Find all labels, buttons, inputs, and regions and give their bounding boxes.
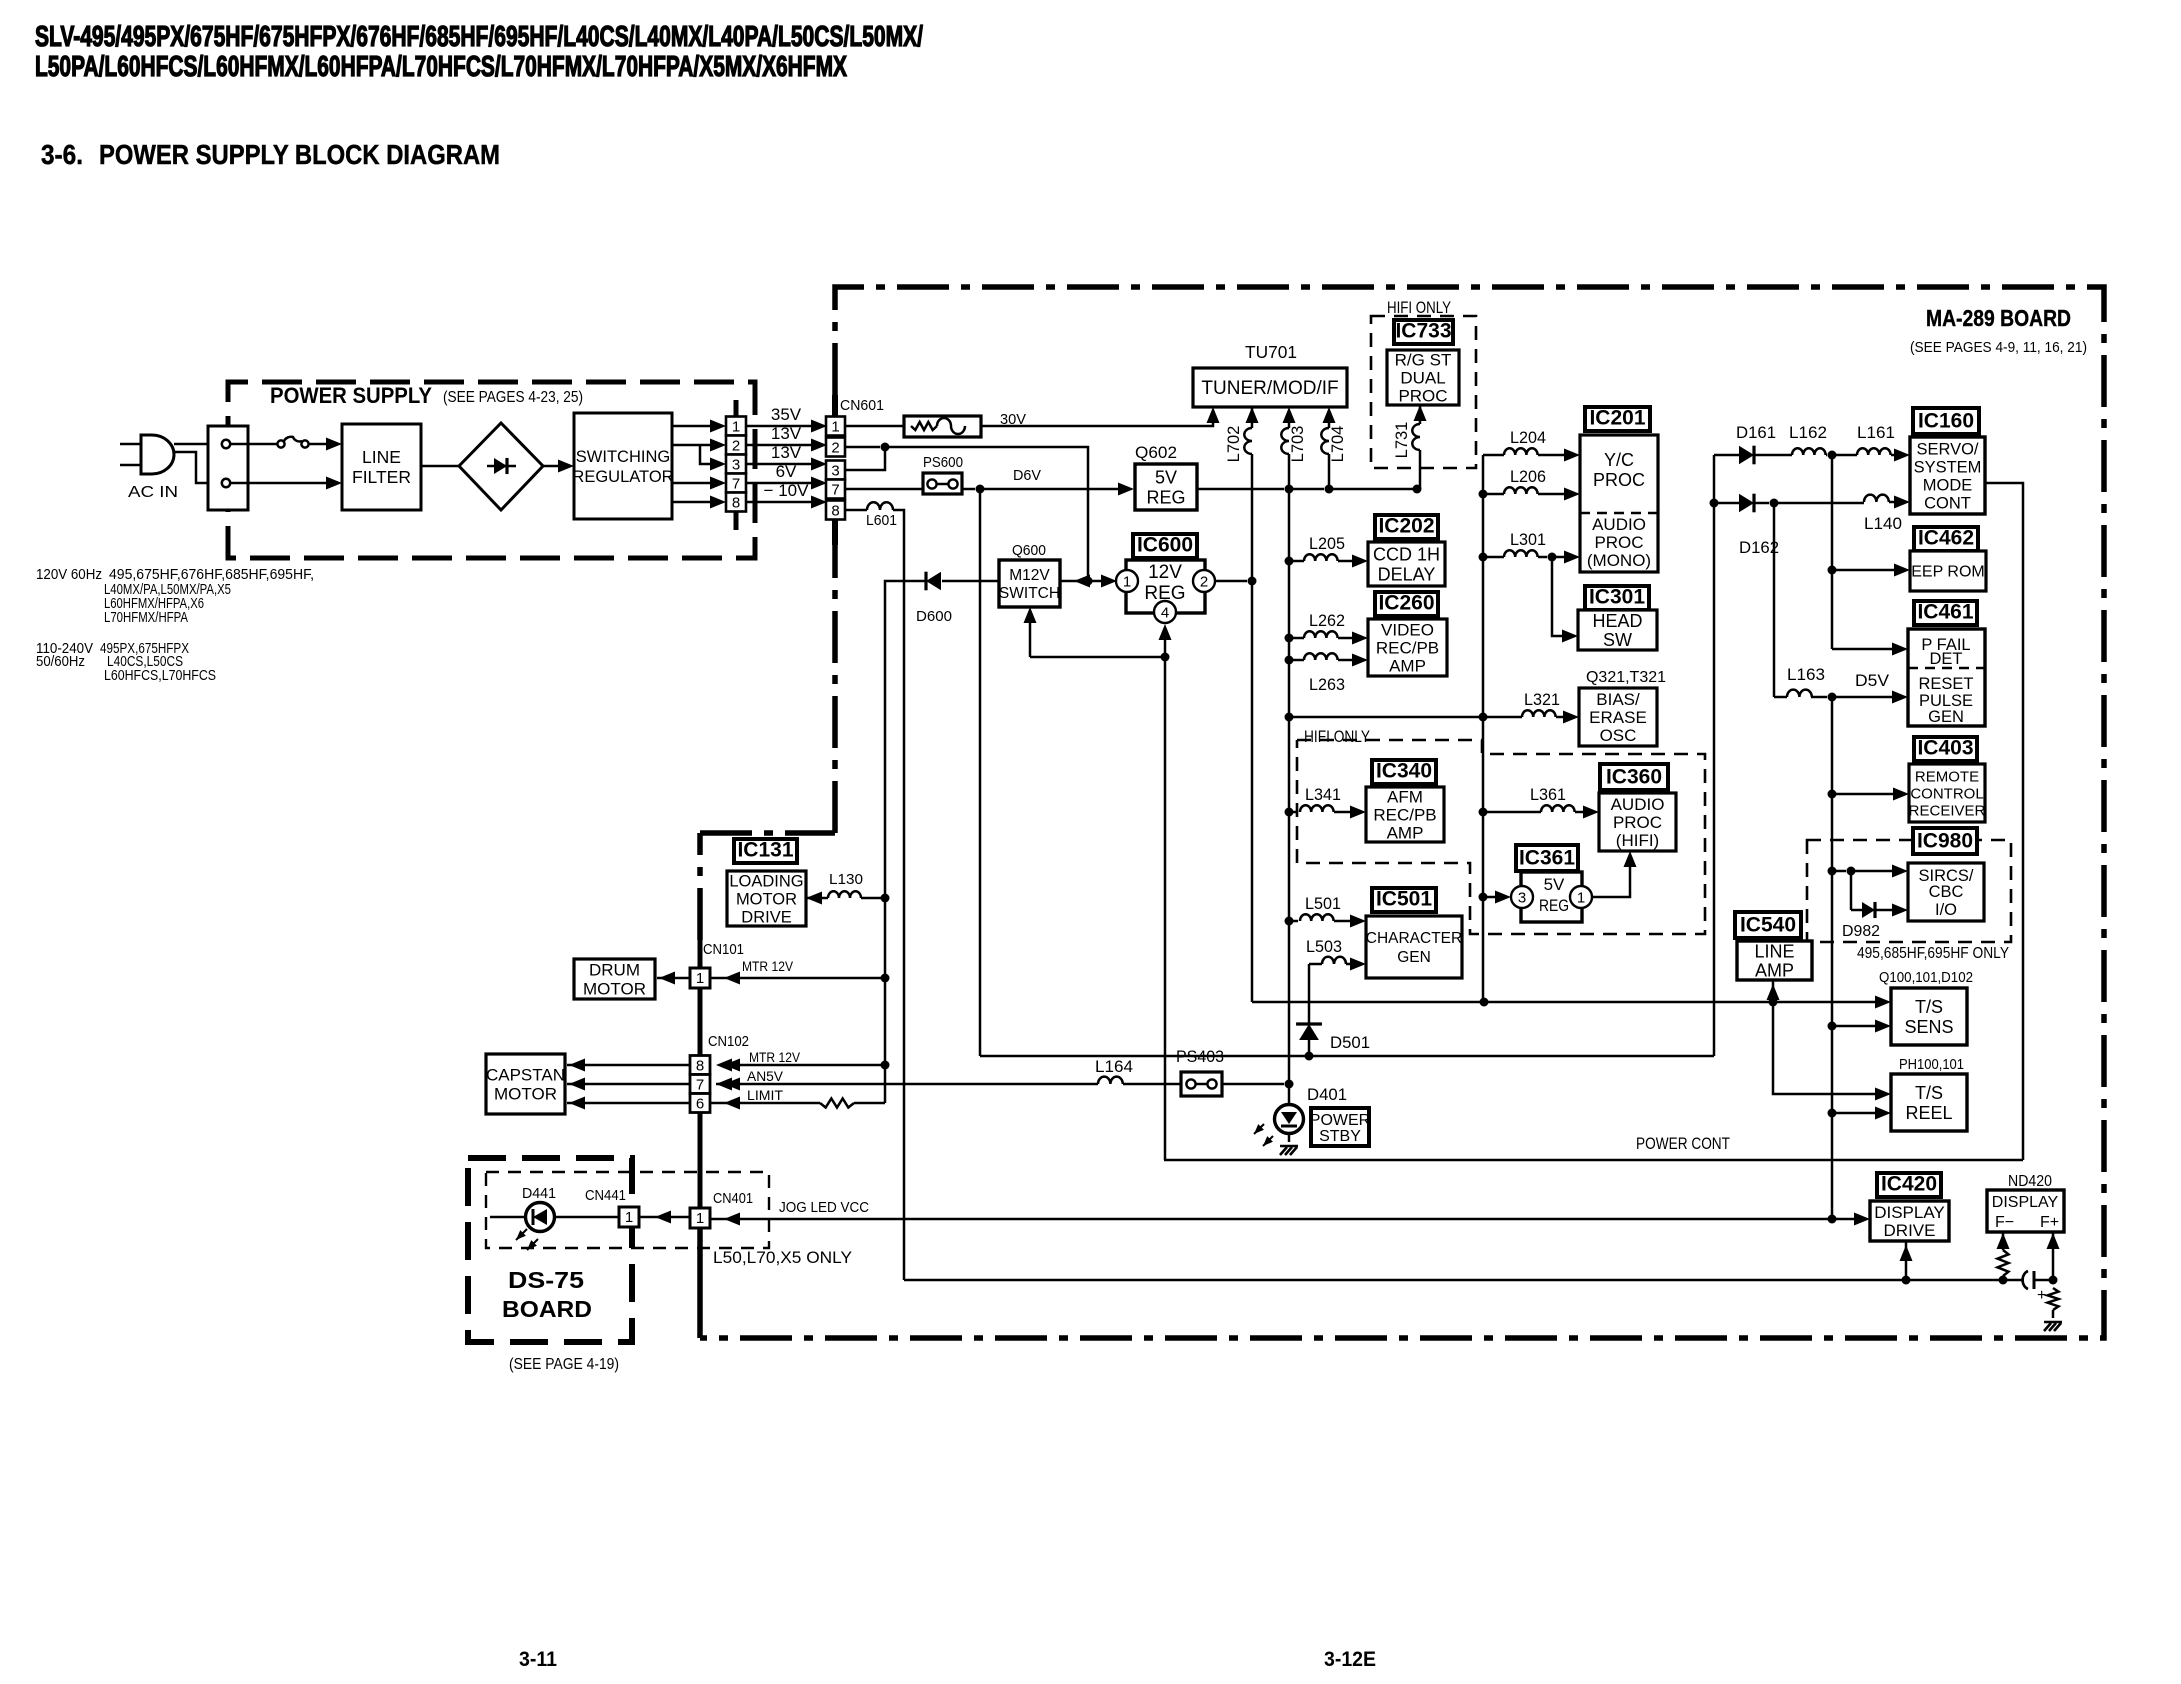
wire D5V to T/S reel [1828,1109,1837,1118]
svg-text:IC360: IC360 [1606,766,1662,789]
IC201 label [1585,407,1650,431]
fuse F601 [230,443,278,446]
12V output wire [1215,580,1247,583]
svg-text:AC IN: AC IN [128,484,178,501]
svg-text:L205: L205 [1309,535,1345,553]
-10V bus horizontal [904,1279,2000,1282]
LED D441 [526,1203,555,1232]
L162 junction vertical [1831,455,1834,649]
inductor L702 [1251,407,1254,412]
svg-text:(MONO): (MONO) [1587,551,1651,570]
svg-text:L161: L161 [1857,423,1895,442]
svg-text:3: 3 [831,463,839,480]
svg-text:DRUM: DRUM [589,960,640,979]
svg-text:1: 1 [1123,574,1131,591]
svg-text:R/G ST: R/G ST [1395,350,1452,369]
svg-text:LOADING: LOADING [729,872,803,890]
svg-text:AMP: AMP [1387,823,1424,842]
svg-text:L50PA/L60HFCS/L60HFMX/L60HFPA/: L50PA/L60HFCS/L60HFMX/L60HFPA/L70HFCS/L7… [35,51,847,83]
svg-text:IC501: IC501 [1376,888,1432,911]
wire CN101 to drum motor [657,977,690,980]
wire IC361 out to audio proc [1592,865,1630,897]
svg-text:D401: D401 [1307,1085,1347,1104]
svg-text:L164: L164 [1095,1057,1133,1076]
regulator IC361 5V REG [1521,872,1582,922]
svg-text:MOTOR: MOTOR [736,890,797,908]
svg-text:L50,L70,X5 ONLY: L50,L70,X5 ONLY [713,1249,852,1267]
svg-text:2: 2 [1200,574,1208,591]
svg-text:8: 8 [831,503,839,520]
svg-text:M12V: M12V [1009,567,1050,584]
inductor L161 [1832,454,1857,457]
svg-text:T/S: T/S [1915,997,1943,1017]
DS-75 board enclosure [468,1158,632,1342]
svg-text:D982: D982 [1842,923,1880,940]
svg-text:D600: D600 [916,608,952,625]
power cont vertical from reg [1164,657,1167,1160]
diode D600 [942,580,999,583]
svg-text:LIMIT: LIMIT [747,1087,783,1103]
svg-text:L206: L206 [1510,468,1546,486]
svg-text:CONT: CONT [1924,494,1971,512]
svg-text:3-11: 3-11 [519,1648,557,1671]
svg-text:L341: L341 [1305,786,1341,804]
wire plug to inlet [174,443,208,446]
svg-text:PROC: PROC [1398,386,1447,405]
-10V wire [746,501,813,504]
IC260 label [1375,592,1438,616]
svg-text:7: 7 [732,476,740,493]
svg-text:REGULATOR: REGULATOR [572,468,673,486]
svg-text:IC980: IC980 [1917,830,1973,853]
svg-text:D501: D501 [1330,1033,1370,1052]
svg-text:RESET: RESET [1918,675,1973,693]
inductor L140 [1755,502,1769,505]
inductor L361 [1479,808,1488,817]
svg-text:L60HFCS,L70HFCS: L60HFCS,L70HFCS [104,668,216,684]
svg-text:13V: 13V [771,443,802,462]
wire F+ riser [2049,1276,2058,1285]
svg-text:(SEE PAGES 4-23, 25): (SEE PAGES 4-23, 25) [443,389,583,406]
svg-text:12V: 12V [1148,562,1182,583]
svg-text:Q321,T321: Q321,T321 [1586,669,1666,686]
power stby label box [1311,1108,1369,1146]
svg-text:AMP: AMP [1755,960,1794,980]
svg-text:CBC: CBC [1929,883,1964,901]
inductor L301 [1479,553,1488,562]
svg-text:BOARD: BOARD [502,1296,592,1322]
30V wire to tuner [981,421,1213,426]
svg-text:PS600: PS600 [923,454,963,471]
IC462 label [1914,527,1978,551]
inductor L341 [1285,808,1294,817]
svg-text:35V: 35V [771,405,802,424]
head switch [1578,610,1657,650]
svg-text:REG: REG [1146,487,1185,507]
svg-text:L704: L704 [1329,426,1347,463]
svg-text:7: 7 [696,1077,704,1094]
bridge rectifier [459,423,543,510]
D162 junction vertical [1773,503,1776,697]
inductor L163 [1774,696,1787,699]
svg-text:L70HFMX/HFPA: L70HFMX/HFPA [104,610,188,626]
inductor L321 [1285,713,1294,722]
svg-text:PROC: PROC [1613,813,1662,832]
12V bus vertical [1251,581,1254,1002]
wires regulator to connector [672,425,712,428]
svg-text:CN441: CN441 [585,1187,626,1204]
svg-text:POWER CONT: POWER CONT [1636,1135,1730,1153]
line amp [1737,941,1812,980]
M12V rail [730,581,926,1065]
svg-text:MOTOR: MOTOR [583,979,646,998]
svg-text:VIDEO: VIDEO [1381,620,1434,639]
svg-text:AN5V: AN5V [747,1068,784,1084]
svg-text:1: 1 [696,970,704,987]
loading motor drive [727,871,806,926]
svg-text:OSC: OSC [1600,726,1637,745]
connector CN102 [698,988,703,1055]
svg-text:DRIVE: DRIVE [1884,1221,1936,1240]
SIRCS/CBC I/O [1908,863,1984,921]
diode D162 [1710,499,1719,508]
svg-text:1: 1 [625,1209,633,1226]
T/S sens [1891,988,1967,1045]
svg-text:(SEE PAGE 4-19): (SEE PAGE 4-19) [509,1356,619,1373]
svg-text:CONTROL: CONTROL [1910,785,1983,802]
svg-text:L263: L263 [1309,676,1345,694]
svg-text:IC340: IC340 [1376,760,1432,783]
svg-text:SW: SW [1603,630,1632,650]
inductor L162 [1755,454,1792,457]
diode D982 [1850,871,1853,910]
inductor L204 [1483,454,1504,457]
svg-text:CN601: CN601 [840,397,884,414]
resistor to F- [1999,1276,2008,1285]
EEP ROM [1910,551,1986,591]
svg-text:L503: L503 [1306,938,1342,956]
display drive feed [1854,1213,1870,1226]
svg-text:3: 3 [1518,890,1526,907]
video rec/pb amp [1368,619,1447,676]
wire 12V to line amp [1772,980,1775,997]
svg-text:REC/PB: REC/PB [1376,638,1439,657]
svg-text:BIAS/: BIAS/ [1596,690,1640,709]
svg-text:L731: L731 [1393,422,1411,459]
IC160 label [1913,408,1979,434]
capstan motor [486,1054,565,1114]
svg-text:AMP: AMP [1389,656,1426,675]
svg-text:4: 4 [1161,605,1169,622]
svg-text:PROC: PROC [1594,533,1643,552]
fuse PS403 [1181,1072,1222,1096]
svg-text:5V: 5V [1544,875,1565,894]
svg-text:DISPLAY: DISPLAY [1874,1203,1945,1222]
svg-text:2: 2 [831,440,839,457]
display drive [1870,1201,1949,1241]
svg-text:SLV-495/495PX/675HF/675HFPX/67: SLV-495/495PX/675HF/675HFPX/676HF/685HF/… [35,21,923,53]
svg-text:CN101: CN101 [703,941,744,958]
svg-text:1: 1 [831,419,839,436]
display ND420 [1987,1190,2064,1232]
svg-text:LINE: LINE [362,447,401,467]
svg-text:AUDIO: AUDIO [1592,515,1646,534]
IC131 label [734,839,797,863]
D6V bus horizontal [980,1055,1714,1058]
inductor L263 [1285,656,1294,665]
inductor L731 [1414,405,1427,421]
svg-text:IC733: IC733 [1395,320,1451,343]
svg-text:IC260: IC260 [1378,592,1434,615]
svg-text:1: 1 [732,419,740,436]
svg-text:F+: F+ [2040,1214,2059,1231]
svg-text:GEN: GEN [1397,949,1431,966]
5V bus vertical [1288,489,1291,1084]
svg-text:8: 8 [732,495,740,512]
svg-text:CCD 1H: CCD 1H [1373,544,1440,564]
wire fuse to line filter [308,443,327,446]
svg-text:L501: L501 [1305,895,1341,913]
svg-text:8: 8 [696,1058,704,1075]
p fail det / reset pulse gen [1908,629,1985,726]
wire inlet to line filter lower [230,482,327,485]
svg-text:CN102: CN102 [708,1033,749,1050]
svg-text:L321: L321 [1524,691,1560,709]
svg-text:IC202: IC202 [1378,515,1434,538]
diode D161 [1714,454,1739,457]
IC461 label [1914,601,1977,625]
svg-text:MTR 12V: MTR 12V [749,1049,801,1065]
inductor L206 [1479,490,1488,499]
svg-text:DET: DET [1930,650,1963,668]
diode D501 zener [1308,964,1311,1024]
svg-text:HIFI ONLY: HIFI ONLY [1387,299,1451,317]
connector CN101 [698,940,703,968]
L50 L70 X5 enclosure [486,1172,769,1248]
T/S reel [1891,1074,1967,1131]
inductor L130 [806,892,822,905]
svg-text:DISPLAY: DISPLAY [1992,1194,2059,1211]
svg-text:SWITCHING: SWITCHING [576,448,670,466]
svg-text:DS-75: DS-75 [508,1267,584,1293]
35V wire [746,425,813,428]
IC160 feedback vertical [1985,483,2023,1160]
svg-text:MA-289 BOARD: MA-289 BOARD [1926,305,2071,331]
inductor L205 [1285,557,1294,566]
svg-text:L140: L140 [1864,514,1902,533]
IC202 label [1375,515,1438,539]
svg-text:1: 1 [696,1210,704,1227]
board edge connector spine [698,1112,703,1208]
R/G ST dual proc [1387,350,1459,405]
svg-text:RECEIVER: RECEIVER [1909,802,1986,819]
D6V rail / PS600 [845,488,923,491]
inductor L262 [1285,634,1294,643]
IC360 label [1600,764,1668,790]
svg-text:L204: L204 [1510,429,1546,447]
svg-text:5V: 5V [1155,467,1177,487]
svg-text:GEN: GEN [1928,708,1964,726]
5V output rail [1197,488,1284,491]
svg-text:LINE: LINE [1754,941,1794,961]
IC501 label [1372,888,1436,912]
character generator [1366,916,1462,978]
svg-text:POWER SUPPLY: POWER SUPPLY [270,383,432,408]
CCD 1H delay [1368,542,1445,586]
wire line-amp node to T/S reel [1773,1002,1878,1094]
line filter [342,424,421,510]
HIFI ONLY enclosure middle [1297,740,1705,934]
inductor L503 [1309,963,1322,966]
svg-text:IC361: IC361 [1519,847,1575,870]
capacitor C420 [2003,1279,2024,1282]
svg-text:Y/C: Y/C [1604,450,1634,470]
AC IN plug [141,435,174,474]
wire bridge to switching regulator [543,465,560,468]
svg-text:TU701: TU701 [1245,342,1297,362]
svg-text:D161: D161 [1736,423,1776,442]
svg-text:SWITCH: SWITCH [999,585,1060,602]
svg-text:L163: L163 [1787,665,1825,684]
D6V vertical drop [979,489,982,1056]
svg-text:IC420: IC420 [1881,1173,1937,1196]
svg-text:HEAD: HEAD [1592,611,1642,631]
IC600 label [1133,534,1197,558]
power cont wire [1164,1159,2023,1162]
wires CN102 to capstan [567,1064,690,1067]
svg-text:L702: L702 [1225,426,1243,463]
svg-text:REMOTE: REMOTE [1915,768,1979,785]
inductor L704 [1323,407,1336,423]
svg-text:CN401: CN401 [713,1190,753,1207]
svg-text:TUNER/MOD/IF: TUNER/MOD/IF [1201,378,1338,399]
bias erase osc [1579,688,1657,746]
svg-text:L361: L361 [1530,786,1566,804]
svg-text:L162: L162 [1789,423,1827,442]
-10V vertical drop [893,510,904,1280]
wire 12V to IC361 [1479,893,1488,902]
svg-text:REG: REG [1539,896,1569,915]
svg-text:SENS: SENS [1904,1017,1953,1037]
12V feed vertical right [1482,455,1485,1002]
12V reg pin4 wire [1164,628,1167,657]
fusible resistor PS601 [845,425,904,428]
wire L301 to head sw [1552,557,1564,636]
inductor L164 [716,1083,1098,1086]
svg-text:POWER: POWER [1310,1112,1370,1129]
D5V bus vertical [1831,697,1834,1219]
connector CN601 [832,395,838,416]
svg-text:IC461: IC461 [1917,601,1973,624]
svg-text:AFM: AFM [1387,787,1423,806]
svg-text:Q600: Q600 [1012,542,1046,559]
audio proc hifi [1599,793,1676,851]
svg-text:POWER SUPPLY BLOCK DIAGRAM: POWER SUPPLY BLOCK DIAGRAM [99,139,500,170]
svg-text:IC160: IC160 [1918,410,1974,433]
svg-text:(SEE PAGES 4-9, 11, 16, 21): (SEE PAGES 4-9, 11, 16, 21) [1910,339,2087,356]
IC540 label [1735,912,1801,938]
resistor to ground [2048,1288,2059,1310]
svg-text:D5V: D5V [1855,671,1890,690]
svg-text:SYSTEM: SYSTEM [1914,458,1982,476]
svg-text:495,675HF,676HF,685HF,695HF,: 495,675HF,676HF,685HF,695HF, [109,567,314,583]
svg-text:3-6.: 3-6. [41,139,83,170]
regulator 12V REG [1126,560,1205,613]
wire 12V to M12V switch [1060,580,1083,583]
D5V wire [1832,696,1894,699]
svg-text:L601: L601 [866,512,897,529]
JOG LED VCC wire [710,1218,1856,1221]
svg-text:L703: L703 [1289,426,1307,463]
svg-text:13V: 13V [771,424,802,443]
svg-text:2: 2 [732,438,740,455]
svg-text:DELAY: DELAY [1378,564,1436,584]
IC403 label [1914,737,1977,761]
servo system mode cont [1910,437,1985,514]
svg-text:PS403: PS403 [1176,1047,1224,1066]
svg-text:AUDIO: AUDIO [1611,795,1665,814]
svg-text:CHARACTER: CHARACTER [1366,930,1462,947]
svg-text:SERVO/: SERVO/ [1916,440,1978,458]
svg-text:L262: L262 [1309,612,1345,630]
13V wire pin2 [746,444,813,447]
inductor L703 [1283,407,1296,423]
wire to remote receiver [1828,790,1837,799]
svg-text:D6V: D6V [1013,467,1041,484]
inductor L501 [1285,917,1294,926]
svg-text:I/O: I/O [1935,901,1957,919]
IC980 enclosure [1807,840,2011,942]
svg-text:PH100,101: PH100,101 [1899,1056,1964,1073]
svg-text:REEL: REEL [1905,1103,1952,1123]
12V bus horizontal [1252,1001,1484,1004]
remote control receiver [1909,764,1985,822]
IC361 label [1516,845,1578,871]
-10V L601 [845,509,867,512]
svg-text:L301: L301 [1510,531,1546,549]
svg-text:ERASE: ERASE [1589,708,1647,727]
svg-text:T/S: T/S [1915,1083,1943,1103]
svg-text:120V 60Hz: 120V 60Hz [36,567,102,583]
svg-text:6V: 6V [776,462,797,481]
svg-text:IC540: IC540 [1740,914,1796,937]
svg-text:CAPSTAN: CAPSTAN [486,1065,565,1084]
svg-text:3: 3 [732,457,740,474]
13V wire pin3 [746,463,813,466]
IC301 label [1585,586,1649,610]
svg-text:MODE: MODE [1923,476,1973,494]
wire MTR12V to CN101 [710,977,885,980]
wire to eep rom [1828,566,1837,575]
13V rail wire [845,446,880,449]
svg-text:IC403: IC403 [1917,737,1973,760]
svg-text:STBY: STBY [1319,1128,1361,1145]
svg-text:IC201: IC201 [1589,407,1645,430]
svg-text:Q602: Q602 [1135,443,1177,462]
IC980 label [1913,828,1977,854]
IC420 label [1877,1173,1941,1197]
D6V riser to D161/D162 [1713,455,1716,1056]
svg-text:FILTER: FILTER [352,467,411,487]
svg-text:50/60Hz: 50/60Hz [36,654,85,670]
svg-text:6: 6 [696,1096,704,1113]
power supply enclosure [228,382,755,558]
svg-text:1: 1 [1577,890,1585,907]
LED D401 power stby [1288,1084,1291,1105]
svg-text:(HIFI): (HIFI) [1616,831,1659,850]
svg-text:EEP ROM: EEP ROM [1911,564,1985,581]
svg-text:MOTOR: MOTOR [494,1084,557,1103]
